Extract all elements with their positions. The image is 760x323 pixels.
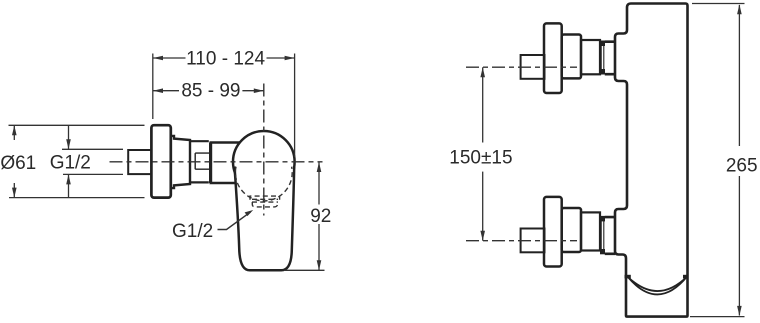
svg-text:85 - 99: 85 - 99	[181, 81, 240, 102]
svg-text:G1/2: G1/2	[50, 153, 91, 174]
svg-text:150±15: 150±15	[449, 148, 512, 169]
svg-text:92: 92	[310, 206, 331, 227]
svg-text:110 - 124: 110 - 124	[186, 49, 265, 70]
svg-text:Ø61: Ø61	[0, 153, 36, 174]
svg-text:G1/2: G1/2	[172, 221, 213, 242]
svg-text:265: 265	[726, 156, 758, 177]
